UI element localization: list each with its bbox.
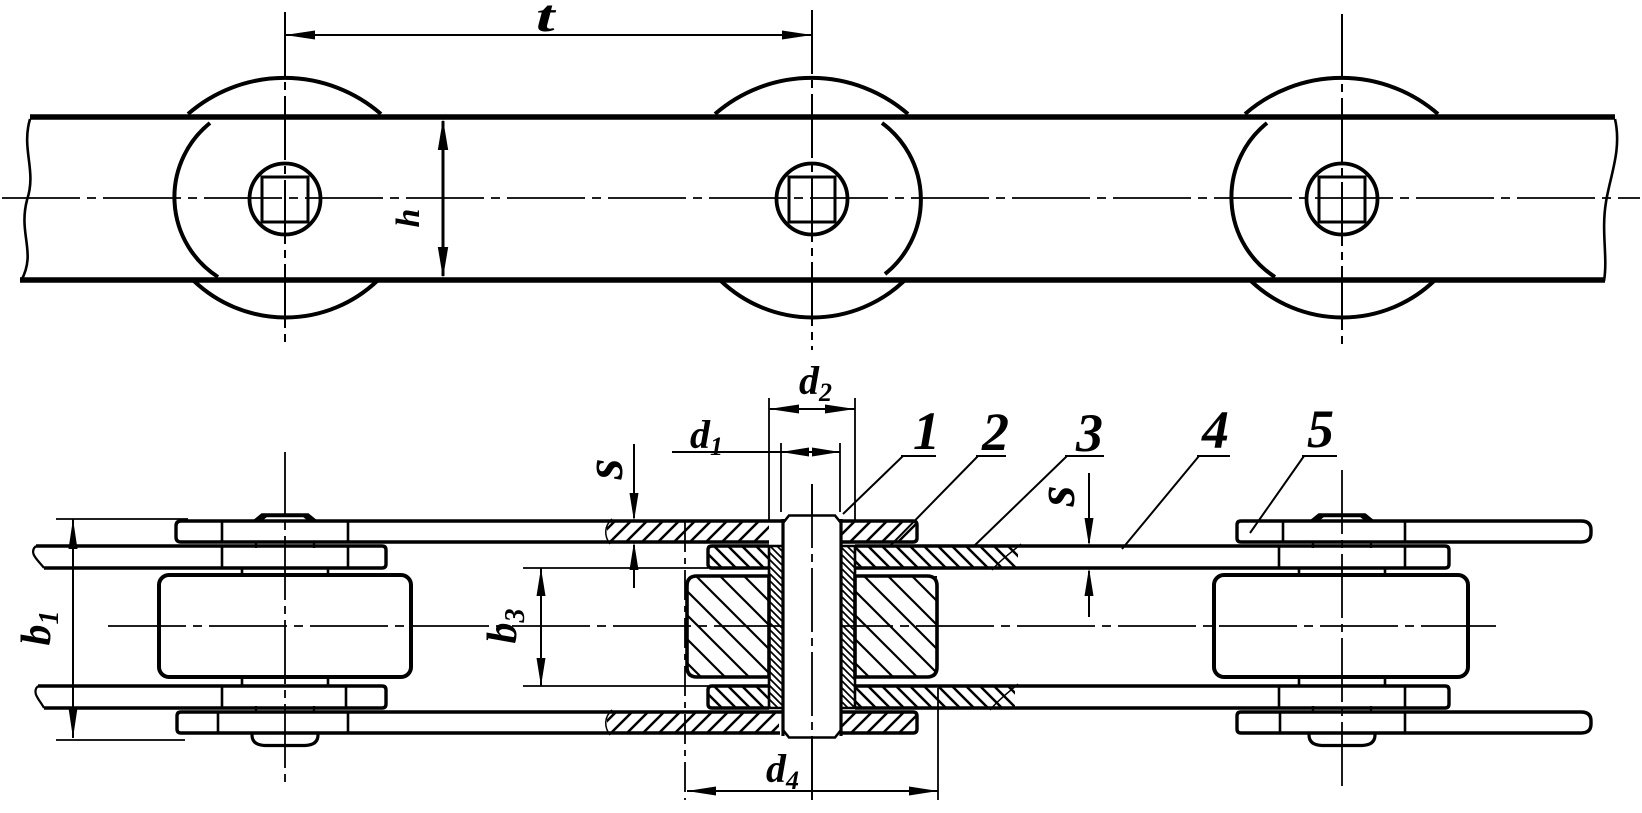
svg-text:s: s [574,458,634,480]
svg-text:1: 1 [913,401,940,461]
svg-text:s: s [1026,485,1086,507]
svg-text:t: t [536,0,557,41]
svg-text:h: h [390,209,427,228]
svg-text:2: 2 [981,402,1009,462]
svg-text:4: 4 [1201,400,1229,460]
svg-text:3: 3 [1075,403,1103,463]
svg-text:5: 5 [1307,399,1334,459]
